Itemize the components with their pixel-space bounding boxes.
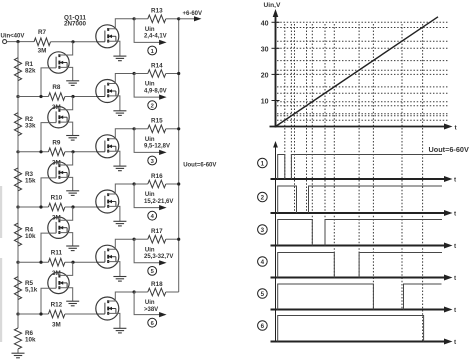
- svg-text:+6-60V: +6-60V: [183, 11, 203, 17]
- svg-text:Uin: Uin: [145, 300, 155, 306]
- construction line at 2.4V (vertical): [284, 24, 286, 179]
- svg-text:Uin: Uin: [145, 192, 155, 198]
- resistor R14: [148, 62, 179, 77]
- svg-text:R8: R8: [52, 84, 61, 91]
- timing trace number 3: [258, 225, 268, 235]
- svg-text:20: 20: [261, 72, 269, 79]
- svg-text:>38V: >38V: [144, 307, 158, 313]
- wire +supply rail (right): [177, 17, 180, 292]
- transistor Q2 (2N7000): [96, 74, 134, 111]
- timing trace number 6: [258, 321, 268, 331]
- construction line at 9.5V (vertical): [311, 24, 313, 246]
- resistor R1: [14, 42, 36, 97]
- construction line at 38.0V (vertical): [422, 24, 424, 342]
- ground (source of Q10): [66, 246, 79, 251]
- node drain Q6 / R18: [133, 290, 148, 293]
- timing trace number 1: [258, 158, 268, 168]
- svg-text:6: 6: [261, 323, 265, 330]
- ground (divider bottom): [12, 353, 25, 358]
- construction line at 8.0V (vertical): [306, 24, 308, 213]
- ground (source of Q8): [66, 136, 79, 141]
- resistor R17: [148, 228, 179, 243]
- svg-text:10k: 10k: [25, 337, 36, 344]
- construction lines horizontal grid: [277, 22, 449, 120]
- svg-text:R14: R14: [151, 62, 163, 69]
- output tap 6: Uin &gt;38V: [134, 292, 167, 317]
- svg-text:40: 40: [261, 20, 269, 27]
- timing diagram vertical axis: [273, 141, 278, 342]
- output number 4: [148, 211, 157, 220]
- resistor R18: [148, 281, 179, 296]
- construction line at 32.7V (vertical): [401, 24, 403, 310]
- timing trace number 4: [258, 257, 268, 267]
- svg-text:1: 1: [261, 160, 265, 167]
- construction line at 4.1V (vertical): [290, 24, 292, 179]
- resistor R4: [14, 207, 36, 262]
- construction line at 15.2V (vertical): [333, 24, 335, 278]
- wire row 4 to gate of big MOSFET: [65, 205, 96, 208]
- resistor R2: [14, 97, 36, 152]
- construction line at 12.8V (vertical): [324, 24, 326, 246]
- ground (source of Q2): [113, 111, 126, 116]
- node drain Q5 / R17: [133, 238, 148, 241]
- graph tick 10: [261, 99, 280, 106]
- svg-text:9,5-12,8V: 9,5-12,8V: [144, 144, 170, 150]
- construction line at 25.3V (vertical): [372, 24, 374, 310]
- svg-text:R17: R17: [151, 228, 163, 235]
- svg-text:Uin: Uin: [145, 247, 155, 253]
- svg-text:R13: R13: [151, 8, 163, 15]
- svg-text:10: 10: [261, 99, 269, 106]
- wire row 3 to gate of big MOSFET: [65, 150, 96, 153]
- ground (source of Q11): [66, 301, 79, 306]
- output number 6: [148, 318, 157, 327]
- svg-text:Uin: Uin: [145, 137, 155, 143]
- resistor R5: [14, 262, 37, 314]
- output number 5: [148, 267, 157, 276]
- graph X axis t: [270, 124, 458, 132]
- svg-text:Uin: Uin: [145, 27, 155, 33]
- input terminal Uin: [3, 40, 7, 44]
- svg-text:Uout=6-60V: Uout=6-60V: [183, 163, 216, 169]
- timing trace number 2: [258, 192, 268, 202]
- svg-text:Uout=6-60V: Uout=6-60V: [429, 145, 469, 154]
- svg-text:3: 3: [261, 227, 265, 234]
- wire left divider rail: [16, 42, 19, 316]
- transistor Q11 (2N7000): [41, 262, 73, 314]
- timing trace 6 signal: [278, 316, 424, 342]
- svg-text:Uin<40V: Uin<40V: [1, 34, 25, 40]
- graph tick 20: [261, 72, 280, 79]
- svg-text:R9: R9: [52, 139, 61, 146]
- svg-text:R12: R12: [51, 302, 63, 309]
- transistor Q8 (2N7000): [41, 97, 73, 152]
- svg-text:3M: 3M: [38, 47, 47, 54]
- svg-text:15k: 15k: [25, 178, 36, 185]
- svg-text:R18: R18: [151, 281, 163, 288]
- node drain Q1 / R13: [133, 17, 148, 20]
- resistor R8: [18, 84, 65, 111]
- output tap 3: Uin 9,5-12,8V: [134, 129, 170, 155]
- resistor R10: [18, 195, 65, 222]
- construction line at 4.9V (vertical): [294, 24, 296, 213]
- svg-text:R15: R15: [151, 118, 163, 125]
- timing trace 4 signal: [278, 253, 442, 278]
- transistor Q10 (2N7000): [41, 207, 73, 262]
- wire node B (gate of Q1): [51, 40, 96, 43]
- timing trace 5 baseline (t axis): [271, 307, 458, 315]
- svg-text:30: 30: [261, 46, 269, 53]
- resistor R3: [14, 152, 36, 207]
- output tap 1: Uin 2,4-4,1V: [134, 19, 167, 45]
- svg-text:R11: R11: [51, 250, 63, 257]
- output number 2: [148, 101, 157, 110]
- ground (source of Q6): [113, 328, 126, 333]
- wire row 6 to gate of big MOSFET: [65, 313, 96, 315]
- resistor R16: [148, 173, 179, 188]
- svg-text:R10: R10: [51, 195, 63, 202]
- ground (source of Q3): [113, 166, 126, 171]
- svg-text:3M: 3M: [52, 322, 61, 329]
- timing trace 1 baseline (t axis): [271, 176, 458, 184]
- supply +6-60V: [179, 11, 202, 21]
- ground (source of Q4): [113, 221, 126, 226]
- svg-text:4: 4: [261, 259, 265, 266]
- ground (source of Q9): [66, 191, 79, 196]
- timing trace number 5: [258, 289, 268, 299]
- output tap 5: Uin 25,3-32,7V: [134, 239, 173, 265]
- timing trace 4 baseline (t axis): [271, 275, 458, 283]
- graph Y axis Uin,V: [264, 2, 281, 128]
- output tap 2: Uin 4,9-8,0V: [134, 74, 167, 100]
- svg-text:5: 5: [261, 291, 265, 298]
- transistor Q5 (2N7000): [96, 239, 134, 276]
- wire row 5 to gate of big MOSFET: [65, 261, 96, 264]
- ground (source of Q7): [66, 81, 79, 86]
- timing trace 1 signal: [278, 155, 442, 180]
- svg-text:R7: R7: [38, 29, 47, 36]
- timing trace 3 signal: [278, 220, 442, 246]
- resistor R9: [18, 139, 65, 166]
- svg-text:82k: 82k: [25, 67, 36, 74]
- timing trace 6 baseline (t axis): [271, 339, 458, 347]
- resistor R13: [148, 8, 179, 23]
- label Uout=6-60V: [183, 163, 216, 169]
- svg-text:R16: R16: [151, 173, 163, 180]
- ground (source of Q1): [113, 56, 126, 61]
- transistor Q3 (2N7000): [96, 129, 134, 166]
- transistor Q4 (2N7000): [96, 184, 134, 221]
- output tap 4: Uin 15,2-21,6V: [134, 184, 173, 210]
- construction line at 21.6V (vertical): [358, 24, 360, 278]
- svg-text:4,9-8,0V: 4,9-8,0V: [144, 88, 167, 94]
- timing trace 5 signal: [278, 284, 442, 310]
- svg-text:Uin: Uin: [145, 82, 155, 88]
- output number 1: [148, 46, 157, 55]
- ramp curve Uin(t): [276, 17, 439, 127]
- svg-text:2N7000: 2N7000: [64, 21, 87, 28]
- resistor R15: [148, 118, 179, 133]
- transistor Q7 (2N7000): [41, 42, 73, 97]
- ground (source of Q5): [113, 277, 126, 282]
- svg-text:2: 2: [151, 104, 154, 110]
- svg-text:2: 2: [261, 194, 265, 201]
- resistor R11: [18, 250, 65, 277]
- transistor Q9 (2N7000): [41, 152, 73, 207]
- svg-text:5,1k: 5,1k: [25, 286, 38, 293]
- output number 3: [148, 156, 157, 165]
- label Uin<40V: [1, 34, 25, 40]
- svg-text:Uin,V: Uin,V: [264, 2, 281, 9]
- svg-text:33k: 33k: [25, 122, 36, 129]
- resistor R6: [14, 314, 36, 353]
- svg-text:15,2-21,6V: 15,2-21,6V: [144, 199, 173, 205]
- timing trace 2 baseline (t axis): [271, 210, 458, 218]
- resistor R12: [18, 302, 65, 329]
- label Q1-Q11 2N7000: [64, 15, 87, 28]
- wire row 2 to gate of big MOSFET: [65, 95, 96, 98]
- wire input to node A: [7, 40, 34, 43]
- node drain Q2 / R14: [133, 72, 148, 75]
- transistor Q6 (2N7000): [96, 292, 134, 328]
- graph tick 40: [261, 20, 280, 27]
- label Uout=6-60V (timing): [429, 145, 469, 154]
- node drain Q3 / R15: [133, 127, 148, 130]
- timing trace 3 baseline (t axis): [271, 243, 458, 251]
- decorative left-edge shading: [0, 186, 2, 342]
- timing trace 2 signal: [278, 186, 442, 213]
- graph tick 30: [261, 46, 280, 53]
- svg-text:25,3-32,7V: 25,3-32,7V: [144, 254, 173, 260]
- transistor Q1 (2N7000): [96, 19, 134, 56]
- node drain Q4 / R16: [133, 182, 148, 185]
- resistor R7: [34, 29, 51, 54]
- svg-text:2,4-4,1V: 2,4-4,1V: [144, 34, 167, 40]
- svg-text:10k: 10k: [25, 233, 36, 240]
